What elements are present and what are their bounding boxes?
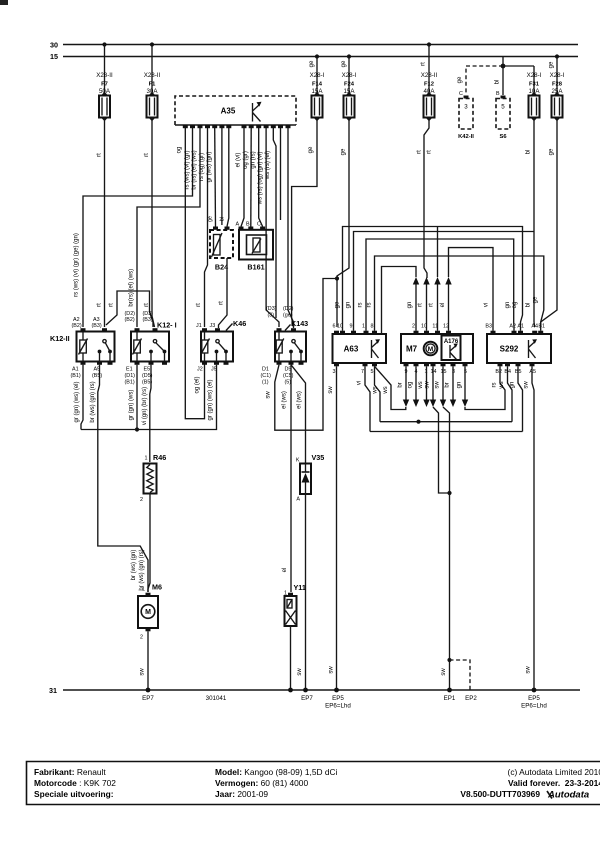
svg-text:(5): (5) xyxy=(285,380,292,386)
svg-text:rs: rs xyxy=(492,383,498,388)
relay K12-I xyxy=(125,311,177,386)
wire M6 to EP7 xyxy=(140,631,149,690)
wire A35 pin12 xyxy=(265,128,276,318)
svg-text:30: 30 xyxy=(50,41,58,50)
node 30 bus label xyxy=(50,41,58,50)
svg-text:K46: K46 xyxy=(233,319,246,328)
svg-text:A4: A4 xyxy=(531,324,538,330)
wire K143 to V35 xyxy=(291,365,306,464)
svg-text:gr (ws) (gn): gr (ws) (gn) xyxy=(206,152,212,183)
wire bus 15 xyxy=(63,56,578,58)
svg-text:B2: B2 xyxy=(495,369,502,375)
svg-text:rt: rt xyxy=(97,153,103,157)
wire M7 pin15 continuation to EP1 xyxy=(441,407,452,690)
svg-text:(ge): (ge) xyxy=(283,313,293,319)
fuse F14 xyxy=(309,54,325,121)
svg-text:1: 1 xyxy=(142,587,145,593)
svg-text:ge: ge xyxy=(549,61,555,68)
svg-text:K12- I: K12- I xyxy=(157,321,177,330)
wire F1 to K12-I pin D3 xyxy=(144,118,155,328)
svg-text:rt: rt xyxy=(144,153,150,157)
relay K46 xyxy=(196,319,246,373)
svg-text:ge: ge xyxy=(309,60,315,67)
svg-text:rt: rt xyxy=(219,301,225,305)
footer table xyxy=(27,762,600,805)
wire M7 pin1 stub with arrow xyxy=(418,366,430,407)
svg-text:Y11: Y11 xyxy=(294,583,306,592)
svg-text:Autodata: Autodata xyxy=(547,790,589,801)
wire K143 to Y11 xyxy=(282,365,292,592)
svg-text:F7: F7 xyxy=(101,82,108,88)
svg-text:M6: M6 xyxy=(152,583,162,592)
wire M7 pin14 stub with arrow xyxy=(425,366,437,407)
wire A35 pin13 stub xyxy=(280,128,282,220)
ground EP5 left xyxy=(325,688,351,710)
svg-text:gr (gn) (ws) (el): gr (gn) (ws) (el) xyxy=(208,379,214,420)
svg-text:og: og xyxy=(408,382,414,389)
wire link to M7 pin2 xyxy=(382,267,417,335)
svg-text:vi: vi xyxy=(357,381,363,385)
svg-text:EP7: EP7 xyxy=(301,695,313,702)
wire A35 pin3 to K12-I xyxy=(129,128,201,327)
svg-text:K12-II: K12-II xyxy=(50,334,70,343)
relay K12-II xyxy=(50,317,115,379)
motor unit M7 xyxy=(401,324,473,376)
svg-text:EP2: EP2 xyxy=(465,695,477,702)
svg-text:EP6=Lhd: EP6=Lhd xyxy=(521,703,547,710)
svg-text:5: 5 xyxy=(371,369,374,375)
wire K143 coil pin down and around xyxy=(266,279,338,431)
svg-text:F1: F1 xyxy=(149,82,157,88)
svg-text:Vermogen: 60 (81) 4000: Vermogen: 60 (81) 4000 xyxy=(215,778,308,788)
svg-text:D1: D1 xyxy=(262,367,269,373)
svg-text:rs (ws) (vi) (gr): rs (ws) (vi) (gr) xyxy=(184,151,190,190)
wire V35 to EP7 xyxy=(297,494,306,690)
ground junction Y11 xyxy=(288,688,293,693)
wire Y11 to ground xyxy=(290,626,292,690)
svg-text:301041: 301041 xyxy=(206,695,227,702)
wire F28 to S292 pin B1 xyxy=(541,118,557,328)
svg-text:Jaar: 2001-09: Jaar: 2001-09 xyxy=(215,789,268,799)
svg-text:rt: rt xyxy=(417,150,423,154)
wire F31 to S292 pin A4 xyxy=(526,118,535,328)
svg-text:J3: J3 xyxy=(210,323,216,329)
svg-text:X28-II: X28-II xyxy=(96,72,113,79)
svg-text:sw: sw xyxy=(328,386,334,394)
wire F14 to K143 xyxy=(292,118,317,328)
svg-text:og: og xyxy=(177,147,183,154)
svg-text:(3): (3) xyxy=(268,313,275,319)
svg-text:2: 2 xyxy=(140,497,143,503)
svg-text:rt: rt xyxy=(196,303,202,307)
svg-text:ge: ge xyxy=(549,148,555,155)
svg-text:(B2): (B2) xyxy=(125,317,135,323)
svg-text:B: B xyxy=(496,91,500,97)
svg-text:Model: Kangoo (98-09) 1,5D dCi: Model: Kangoo (98-09) 1,5D dCi xyxy=(215,767,338,777)
svg-text:B3: B3 xyxy=(485,324,492,330)
svg-text:ge: ge xyxy=(308,146,314,153)
ground EP5 right xyxy=(521,688,547,710)
wire S6 to junction xyxy=(495,66,504,95)
svg-text:A35: A35 xyxy=(221,107,236,116)
svg-text:rt: rt xyxy=(97,303,103,307)
svg-text:Valid forever. 23-3-2014: Valid forever. 23-3-2014 xyxy=(508,778,600,788)
svg-text:7: 7 xyxy=(361,369,364,375)
svg-text:A2: A2 xyxy=(509,324,516,330)
ECU S292 xyxy=(485,324,551,376)
connector S6 xyxy=(496,91,510,140)
wire A35 pin8 to B161 pin A xyxy=(236,128,245,227)
connector K42-II xyxy=(458,91,474,140)
svg-text:sw: sw xyxy=(266,391,272,399)
svg-text:J1: J1 xyxy=(196,323,202,329)
svg-text:sw: sw xyxy=(526,666,532,674)
svg-text:(D1): (D1) xyxy=(125,373,136,379)
diode V35 xyxy=(296,453,324,503)
svg-text:el: el xyxy=(282,568,288,573)
svg-text:bl: bl xyxy=(220,217,226,221)
svg-text:ws (rs) (og) (gn) (vi): ws (rs) (og) (gn) (vi) xyxy=(258,152,264,206)
svg-text:A63: A63 xyxy=(344,345,359,354)
wire K12-I E5 to R46 xyxy=(142,365,151,462)
svg-text:rt: rt xyxy=(109,303,115,307)
wire dashed to K42-II xyxy=(457,66,503,95)
svg-text:F14: F14 xyxy=(312,82,323,88)
wire M7 pin14 continuation xyxy=(433,407,450,493)
svg-text:X28-I: X28-I xyxy=(310,72,325,79)
svg-text:3: 3 xyxy=(333,369,336,375)
wire A35 pin11 to K143 xyxy=(258,128,279,327)
svg-text:EP6=Lhd: EP6=Lhd xyxy=(325,703,351,710)
ground EP7 (M6) xyxy=(142,688,154,702)
svg-text:gn: gn xyxy=(457,382,463,389)
svg-text:X28-I: X28-I xyxy=(342,72,357,79)
svg-text:bl: bl xyxy=(495,80,501,85)
svg-text:ge: ge xyxy=(341,60,347,67)
svg-text:ws: ws xyxy=(383,386,389,394)
svg-text:el (ws): el (ws) xyxy=(297,391,303,409)
wire M7 pin3 stub with arrow xyxy=(445,366,457,407)
svg-text:br: br xyxy=(398,382,404,387)
svg-text:(C5): (C5) xyxy=(283,373,294,379)
svg-text:gn: gn xyxy=(346,302,352,309)
svg-text:9: 9 xyxy=(350,324,353,330)
wire S292 A5 to EP5 xyxy=(524,366,535,690)
svg-text:A5: A5 xyxy=(529,369,536,375)
svg-text:br: br xyxy=(445,382,451,387)
relay K143 xyxy=(261,306,309,386)
ECU A176 xyxy=(442,336,461,361)
wire rail A63 pin1 to S292 A2 xyxy=(366,239,514,331)
svg-text:rt: rt xyxy=(429,303,435,307)
wire rail A63 pin9 to F31 column xyxy=(354,232,535,331)
svg-text:(D2): (D2) xyxy=(283,306,294,312)
svg-text:sw: sw xyxy=(524,381,530,389)
wire M7 pin12 stub with arrow xyxy=(440,277,452,331)
wire link S292 B3 to M7 pin12 xyxy=(449,248,494,331)
wire S292 A4 stub label xyxy=(526,303,532,308)
svg-text:J2: J2 xyxy=(197,367,203,373)
wire A63 pin5 branch a xyxy=(373,366,381,421)
svg-text:ge: ge xyxy=(341,148,347,155)
corner mark xyxy=(0,0,8,5)
svg-text:F24: F24 xyxy=(344,82,355,88)
wire M7 pin10 stub with arrow xyxy=(418,277,430,331)
svg-text:el (ws): el (ws) xyxy=(282,391,288,409)
svg-text:(1): (1) xyxy=(262,380,269,386)
svg-text:2: 2 xyxy=(140,635,143,641)
svg-text:(B3): (B3) xyxy=(92,323,102,329)
wire A63 pin3 to EP5 xyxy=(328,366,337,690)
svg-text:sw: sw xyxy=(329,666,335,674)
svg-text:ws (rs) (el): ws (rs) (el) xyxy=(265,151,271,180)
svg-text:E5: E5 xyxy=(144,367,151,373)
wire A63 pin5 branch b to M7 pin9 xyxy=(375,366,406,409)
wire S292 B1 stub label xyxy=(533,296,539,303)
wire S292 B2 to M7 pin5 xyxy=(465,366,505,409)
svg-text:EP1: EP1 xyxy=(444,695,456,702)
wire M7 pin11 stub with arrow xyxy=(429,277,441,331)
wire M7 pin4 stub with arrow xyxy=(408,366,420,407)
wire horizontal link under M7 xyxy=(380,420,512,424)
svg-text:X28-I: X28-I xyxy=(550,72,565,79)
resistor R46 xyxy=(140,453,166,503)
svg-text:ws: ws xyxy=(373,386,379,394)
svg-text:gn: gn xyxy=(510,382,516,389)
svg-text:V8.500-DUTT703969: V8.500-DUTT703969 xyxy=(460,789,540,799)
svg-text:K42-II: K42-II xyxy=(458,134,474,140)
svg-text:V35: V35 xyxy=(312,453,325,462)
svg-text:(B1): (B1) xyxy=(125,380,135,386)
wire horizontal link outer under M7 xyxy=(370,431,523,433)
wire K12-II A5 to M6 xyxy=(90,365,148,592)
wire K46 J5 to ground rail xyxy=(81,365,217,430)
wire F12 to M7 pin 10 xyxy=(417,118,433,279)
node document number xyxy=(206,695,227,702)
sensor B161 xyxy=(236,222,274,272)
fuse F28 xyxy=(549,54,565,121)
ground EP2 xyxy=(465,695,477,702)
svg-text:gn: gn xyxy=(407,302,413,309)
svg-text:ws: ws xyxy=(499,381,505,389)
svg-text:EP5: EP5 xyxy=(332,695,344,702)
svg-text:rt: rt xyxy=(421,62,427,66)
fuse F31 xyxy=(503,66,542,121)
svg-text:(B5): (B5) xyxy=(92,373,102,379)
svg-text:el (vi): el (vi) xyxy=(236,153,242,168)
wire S292 A2 stub label xyxy=(505,302,511,309)
fuse F24 xyxy=(341,54,357,121)
svg-text:A1: A1 xyxy=(72,367,79,373)
wire A35 pin2 to K12-II pin A2 xyxy=(74,128,193,327)
wire bus 31 xyxy=(63,689,580,691)
wire S292 B3 stub xyxy=(484,303,490,307)
svg-text:6: 6 xyxy=(333,324,336,330)
svg-text:ge: ge xyxy=(457,76,463,83)
svg-text:Motorcode : K9K 702: Motorcode : K9K 702 xyxy=(34,778,116,788)
svg-text:el: el xyxy=(440,303,446,308)
node 15 bus label xyxy=(50,52,58,61)
ECU A63 xyxy=(333,301,387,375)
wire A35 pin5 to B24 xyxy=(206,128,215,227)
wire R46 to M6 xyxy=(148,494,150,593)
wire F24 to A63 pin 6 xyxy=(337,118,349,328)
svg-text:(B2): (B2) xyxy=(72,323,82,329)
wire A35 pin10 to B161 pin C xyxy=(250,128,262,227)
svg-text:M7: M7 xyxy=(406,345,418,354)
svg-text:X28-I: X28-I xyxy=(527,72,542,79)
svg-text:rt: rt xyxy=(418,303,424,307)
svg-text:3: 3 xyxy=(464,104,468,111)
svg-text:R46: R46 xyxy=(153,453,166,462)
fuse F7 xyxy=(96,42,113,121)
svg-text:1: 1 xyxy=(145,456,148,462)
svg-text:X28-II: X28-II xyxy=(144,72,161,79)
svg-text:br: br xyxy=(129,301,135,306)
svg-text:gn (rs): gn (rs) xyxy=(250,151,256,168)
svg-text:rs (ws) (vi) (gr) (ge) (gn): rs (ws) (vi) (gr) (ge) (gn) xyxy=(74,233,80,297)
svg-text:15: 15 xyxy=(50,52,58,61)
wire A35 pin6 stub xyxy=(221,128,223,225)
svg-text:E1: E1 xyxy=(126,367,133,373)
wire rail A63 pin10 to S292 A1 xyxy=(343,227,523,331)
svg-text:br (ws) (gn): br (ws) (gn) xyxy=(131,550,137,581)
wire bus 30 xyxy=(63,44,578,46)
svg-text:rs (og) (gr): rs (og) (gr) xyxy=(199,153,205,181)
svg-text:(B3): (B3) xyxy=(143,317,153,323)
wire link K12-II A3 to K12-I D3 xyxy=(106,291,153,327)
svg-text:bl: bl xyxy=(526,303,532,308)
wire F7 to K12-II pin A3 xyxy=(97,118,105,328)
svg-text:Speciale uitvoering:: Speciale uitvoering: xyxy=(34,789,114,799)
motor M6 xyxy=(138,583,162,641)
svg-text:rs: rs xyxy=(367,303,373,308)
svg-text:og (gr): og (gr) xyxy=(243,151,249,169)
svg-text:og (el): og (el) xyxy=(195,376,201,393)
wire M7 pin9 stub with arrow xyxy=(398,366,410,407)
ground EP1 xyxy=(444,688,456,702)
svg-text:Fabrikant: Renault: Fabrikant: Renault xyxy=(34,767,106,777)
svg-text:F31: F31 xyxy=(529,82,540,88)
svg-text:M: M xyxy=(145,609,151,616)
wire B24 to K46 J3 xyxy=(219,258,228,328)
wire M7 pin15 stub with arrow xyxy=(435,366,447,407)
svg-text:sw: sw xyxy=(140,668,146,676)
svg-text:B24: B24 xyxy=(215,263,228,272)
svg-text:sw: sw xyxy=(435,381,441,389)
svg-text:F12: F12 xyxy=(424,82,434,88)
svg-text:(B1): (B1) xyxy=(71,373,81,379)
svg-text:bl: bl xyxy=(526,150,532,155)
svg-text:X28-II: X28-II xyxy=(421,72,438,79)
svg-text:ge: ge xyxy=(533,296,539,303)
svg-text:1: 1 xyxy=(362,324,365,330)
wire S292 B5 down xyxy=(510,366,523,431)
svg-text:rt: rt xyxy=(427,150,433,154)
svg-text:M: M xyxy=(428,346,433,353)
wire rail A63 pin8 to S292 B1 xyxy=(375,256,544,331)
svg-text:vi (gn) (br) (rs): vi (gn) (br) (rs) xyxy=(142,387,148,425)
node junction F24 branch xyxy=(335,276,339,280)
valve Y11 xyxy=(284,583,306,626)
fuse F12 xyxy=(421,42,438,121)
svg-text:K143: K143 xyxy=(291,319,308,328)
svg-text:ge: ge xyxy=(208,216,214,222)
wire K12-II A1 down xyxy=(74,365,83,430)
svg-text:5: 5 xyxy=(501,104,505,111)
wire K12-I E1 to ground rail xyxy=(129,365,140,432)
svg-text:br (ws) (gn) (rs): br (ws) (gn) (rs) xyxy=(139,549,145,590)
svg-text:ge: ge xyxy=(335,301,341,308)
svg-text:ws: ws xyxy=(418,381,424,389)
wire A63 pin7 xyxy=(357,366,371,431)
ground EP7 (V35) xyxy=(301,688,313,702)
svg-text:F28: F28 xyxy=(552,82,563,88)
svg-text:8: 8 xyxy=(371,324,374,330)
wire dashed EP2 branch xyxy=(450,660,471,690)
node junction on bus 15 for S6 xyxy=(501,57,506,69)
wire A35 pin9 to B161 pin B xyxy=(243,128,251,227)
svg-text:EP7: EP7 xyxy=(142,695,154,702)
wire M7 pin5 stub with arrow xyxy=(457,366,469,407)
svg-text:sw: sw xyxy=(441,668,447,676)
svg-text:S6: S6 xyxy=(499,134,507,140)
wire A35 pin14 to Y11 xyxy=(288,128,294,328)
wire M7 pin2 stub with arrow xyxy=(407,277,419,331)
svg-text:gn: gn xyxy=(505,302,511,309)
sensor B24 xyxy=(208,216,234,272)
svg-text:og: og xyxy=(512,302,518,309)
svg-text:sw: sw xyxy=(297,668,303,676)
ECU A35 xyxy=(175,96,296,128)
svg-text:B161: B161 xyxy=(247,263,264,272)
svg-text:2: 2 xyxy=(412,324,415,330)
svg-text:sw: sw xyxy=(425,381,431,389)
svg-text:rs: rs xyxy=(358,303,364,308)
svg-text:vi: vi xyxy=(484,303,490,307)
svg-text:(c) Autodata Limited 2010: (c) Autodata Limited 2010 xyxy=(508,767,600,777)
wire feeder M7 pin11 xyxy=(437,227,439,278)
svg-text:EP5: EP5 xyxy=(528,695,540,702)
svg-text:br (rs) (el) (ws): br (rs) (el) (ws) xyxy=(192,150,198,189)
svg-text:(C1): (C1) xyxy=(261,373,272,379)
wire S292 B4 down xyxy=(499,366,512,421)
wire S292 A1 stub label xyxy=(512,302,518,309)
svg-text:(D3): (D3) xyxy=(266,306,277,312)
wire A35 pin1 to K46 pin J2 xyxy=(177,128,205,419)
node 31 bus label xyxy=(49,686,57,695)
svg-text:br (ws) (gn) (rs): br (ws) (gn) (rs) xyxy=(90,381,96,422)
svg-text:gr (gn) (ws): gr (gn) (ws) xyxy=(129,390,135,421)
svg-text:(rs) (el) (ws): (rs) (el) (ws) xyxy=(129,269,135,301)
svg-text:31: 31 xyxy=(49,686,57,695)
svg-text:B1: B1 xyxy=(538,324,545,330)
svg-text:A: A xyxy=(296,497,300,503)
svg-text:gr (gn) (ws) (el): gr (gn) (ws) (el) xyxy=(74,381,80,422)
svg-text:S292: S292 xyxy=(500,345,519,354)
svg-text:C: C xyxy=(459,91,463,97)
wire A35 pin7 to B24 xyxy=(227,128,229,227)
fuse F1 xyxy=(144,42,161,121)
wire A35 pin4 to K46 pin J1 xyxy=(196,128,208,327)
